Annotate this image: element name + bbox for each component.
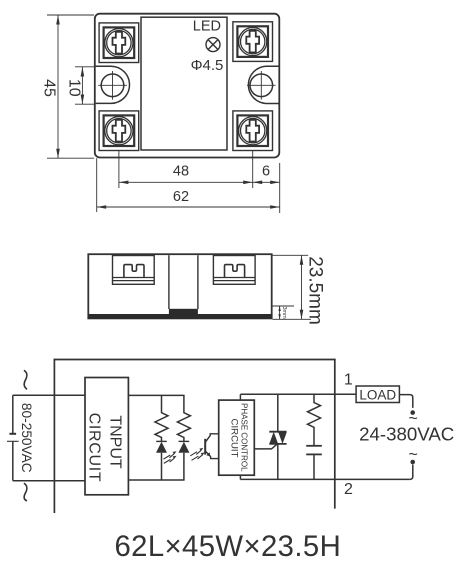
svg-text:2: 2 xyxy=(344,481,353,498)
svg-text:23.5mm: 23.5mm xyxy=(304,256,325,325)
svg-text:62L×45W×23.5H: 62L×45W×23.5H xyxy=(114,530,341,563)
svg-text:PHASE CONTROL: PHASE CONTROL xyxy=(240,403,249,472)
svg-text:6: 6 xyxy=(262,164,270,180)
svg-text:80-250VAC: 80-250VAC xyxy=(19,403,34,473)
svg-text:LOAD: LOAD xyxy=(359,388,396,403)
svg-text:62: 62 xyxy=(173,189,189,205)
svg-text:LED: LED xyxy=(193,19,221,35)
svg-text:48: 48 xyxy=(173,164,189,180)
svg-text:CIRCUIT: CIRCUIT xyxy=(85,413,102,483)
svg-text:24-380VAC: 24-380VAC xyxy=(359,424,454,445)
svg-text:~: ~ xyxy=(409,447,418,464)
svg-text:CIRCUIT: CIRCUIT xyxy=(229,419,240,458)
svg-text:TNPUT: TNPUT xyxy=(106,415,123,469)
svg-text:3mm: 3mm xyxy=(281,306,287,319)
svg-text:45: 45 xyxy=(41,79,58,97)
svg-text:Φ4.5: Φ4.5 xyxy=(191,57,224,74)
svg-text:1: 1 xyxy=(344,371,353,388)
svg-text:10: 10 xyxy=(65,79,82,97)
